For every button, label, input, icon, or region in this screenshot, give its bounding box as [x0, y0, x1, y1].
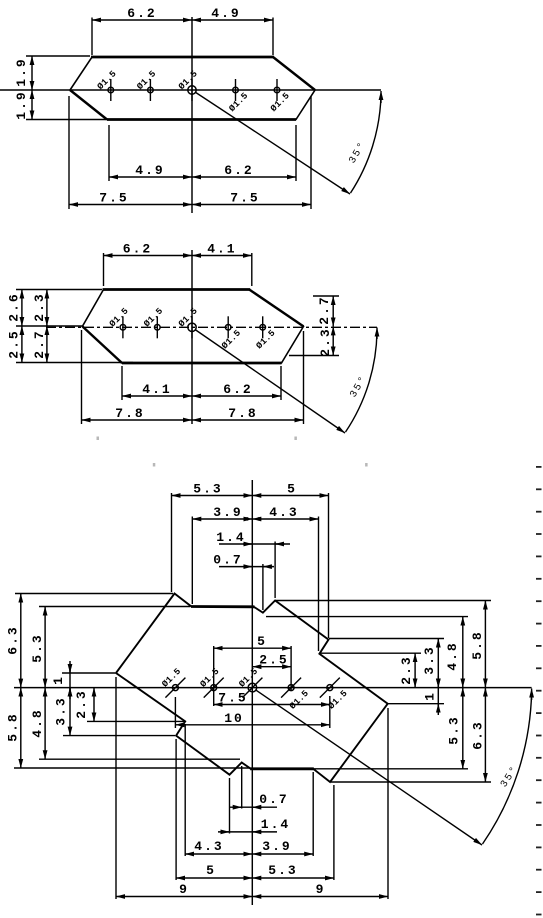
extension line y=326 left (view 2): [16, 325, 82, 327]
svg-text:6.2: 6.2: [127, 6, 156, 21]
svg-text:1.4: 1.4: [216, 530, 245, 545]
svg-text:4.3: 4.3: [269, 505, 298, 520]
hole 1 (view 1): [108, 87, 114, 93]
extension line x=103.5 (view 2): [103, 253, 105, 286]
dimension 3.9 bottom (view 3): [252, 853, 313, 855]
svg-text:1.4: 1.4: [261, 817, 290, 832]
extension line x=229.5 (view 3): [229, 778, 231, 834]
svg-text:5.8: 5.8: [470, 630, 485, 659]
dimension 6.2 top (view 2): [104, 255, 193, 257]
extension line x=213.7 inner (view 3): [213, 646, 215, 706]
svg-text:0.7: 0.7: [259, 792, 288, 807]
extension line x=92 (view 1): [91, 18, 93, 56]
dimension 5 inner (view 3): [214, 647, 291, 649]
extension line x=275.1 (view 3): [274, 542, 276, 599]
svg-text:4.1: 4.1: [207, 242, 236, 257]
svg-text:6.2: 6.2: [223, 382, 252, 397]
extension line x=116 (view 3): [115, 677, 117, 899]
dimension 4.3 top (view 3): [252, 518, 318, 520]
svg-text:2.7: 2.7: [317, 295, 332, 324]
dimension 5.3 top (view 3): [172, 495, 253, 497]
svg-text:6.3: 6.3: [471, 720, 486, 749]
dimension 2.3 right (view 2): [332, 326, 334, 355]
extension line y=703.7 right (view 3): [388, 703, 444, 705]
extension line x=333.9 (view 3): [333, 785, 335, 880]
svg-text:4.8: 4.8: [30, 708, 45, 737]
svg-text:10: 10: [224, 711, 244, 726]
angle arc 35 (view 1): [351, 95, 382, 193]
dimension 5 top (view 3): [252, 495, 328, 497]
hole 3 (view 3): [248, 683, 257, 692]
extension line x=176.1 (view 3): [175, 739, 177, 880]
svg-text:5: 5: [206, 863, 216, 878]
svg-text:4.1: 4.1: [142, 382, 171, 397]
svg-text:5.3: 5.3: [268, 863, 297, 878]
extension line x=318.5 (view 3): [318, 517, 320, 652]
dimension 7.8 right (view 2): [192, 419, 304, 421]
extension line y=56 (view 1): [26, 55, 90, 57]
extension line y=735.6 left (view 3): [63, 735, 175, 737]
svg-text:9: 9: [316, 882, 326, 897]
extension line x=241.7 (view 3): [241, 766, 243, 809]
dimension 1.4 bottom (view 3): [218, 831, 277, 833]
extension line x=262.9 (view 3): [262, 564, 264, 610]
dimension 2.5 (view 2): [21, 326, 23, 363]
dimension 4.8 right (view 3): [462, 617, 464, 688]
dimension 2.3 right (view 3): [414, 653, 416, 687]
extension line x=192.3 (view 3): [191, 517, 193, 605]
hole 4 (view 1): [233, 87, 239, 93]
dimension 2.5 inner (view 3): [252, 666, 291, 668]
extension line x=109 (view 1): [108, 125, 110, 181]
angle arc 35 (view 3): [483, 693, 532, 845]
svg-text:7.5: 7.5: [230, 191, 259, 206]
svg-text:3.3: 3.3: [54, 696, 69, 725]
dimension 1.9 lower (view 1): [31, 90, 33, 120]
svg-text:5.3: 5.3: [447, 715, 462, 744]
extension line y=638.5 right (view 3): [329, 638, 444, 640]
svg-text:4.3: 4.3: [194, 839, 223, 854]
dimension 6.3 left (view 3): [20, 594, 22, 688]
svg-text:9: 9: [179, 882, 189, 897]
extension line y=616.6 right (view 3): [266, 616, 468, 618]
extension line x=329.8 inner (view 3): [329, 696, 331, 728]
vertical center line (view 1): [191, 17, 193, 213]
dimension 1 left (view 3): [69, 661, 71, 699]
extension line y=768.8 right (view 3): [313, 768, 468, 770]
extension line x=296 (view 1): [295, 125, 297, 181]
dimension 2.3 left (view 3): [93, 688, 95, 722]
extension line x=185.2 (view 3): [184, 724, 186, 856]
dimension 4.1 bottom (view 2): [122, 395, 192, 397]
dimension 6.2 bottom (view 1): [192, 176, 296, 178]
dimension 1.4 top (view 3): [219, 543, 290, 545]
horizontal center line (view 3): [14, 687, 532, 689]
svg-text:2.5: 2.5: [259, 653, 288, 668]
dimension 5 bottom (view 3): [176, 877, 252, 879]
angle leader line 35 (view 3): [256, 690, 483, 845]
extension line y=362.5 left (view 2): [16, 362, 133, 364]
dimension 1.9 upper (view 1): [31, 56, 33, 90]
dimension 6.2 bottom (view 2): [192, 395, 281, 397]
dimension 5.8 left (view 3): [20, 688, 22, 768]
extension line x=171.5 (view 3): [171, 493, 173, 592]
dimension 7.5 left (view 1): [69, 204, 192, 206]
extension line y=600.5 right (view 3): [276, 600, 491, 602]
part outline stepped hexagon (view 3): [116, 594, 388, 783]
faint page artifact dots: [97, 437, 100, 441]
extension line y=782 right (view 3): [331, 781, 491, 783]
svg-text:7.5: 7.5: [99, 191, 128, 206]
extension line x=303.5 (view 2): [303, 331, 305, 424]
extension line x=175.4 inner (view 3): [174, 697, 176, 728]
hole 3 (view 1): [188, 86, 196, 94]
horizontal center line (view 2): [46, 326, 377, 328]
hole 5 (view 2): [260, 325, 266, 331]
extension line y=653.2 right (view 3): [320, 652, 421, 654]
svg-text:2.7: 2.7: [32, 329, 47, 358]
hole 5 (view 3): [327, 685, 333, 691]
hole 4 (view 2): [225, 325, 231, 331]
extension line y=673 left (view 3): [62, 672, 115, 674]
svg-text:2.6: 2.6: [7, 292, 22, 321]
dimension 3.9 top (view 3): [192, 518, 252, 520]
svg-text:3.9: 3.9: [262, 839, 291, 854]
vertical center line (view 3): [251, 480, 253, 905]
dimension 5.3 right (view 3): [462, 688, 464, 769]
dimension 2.7 left (view 2): [46, 326, 48, 363]
svg-text:4.9: 4.9: [135, 163, 164, 178]
extension line x=313.2 (view 3): [312, 772, 314, 856]
hole 1 (view 2): [120, 325, 126, 331]
extension line x=251.8 (view 2): [251, 253, 253, 286]
dimension 4.9 bottom (view 1): [109, 176, 192, 178]
svg-text:6.3: 6.3: [6, 625, 21, 654]
hole 2 (view 3): [211, 685, 217, 691]
horizontal center line (view 1): [0, 89, 381, 91]
svg-text:1.9: 1.9: [14, 57, 29, 86]
dimension 4.8 left (view 3): [44, 688, 46, 760]
part outline hexagon (view 1): [70, 57, 315, 120]
dimension 5.3 left (view 3): [44, 607, 46, 688]
svg-text:7.8: 7.8: [115, 406, 144, 421]
part outline hexagon (view 2): [82, 290, 303, 364]
svg-text:2.3: 2.3: [32, 292, 47, 321]
tick dots at center of 3.9/4.3 dimension (view 3): [245, 517, 248, 520]
extension line y=296 right (view 2): [313, 295, 339, 297]
extension line y=721.4 left (view 3): [87, 720, 185, 722]
svg-text:4.9: 4.9: [211, 6, 240, 21]
extension line x=122 (view 2): [121, 366, 123, 400]
dimension 10 inner (view 3): [175, 724, 329, 726]
dimension 2.7 right (view 2): [332, 296, 334, 326]
hole 1 (view 3): [172, 685, 178, 691]
dimension 4.9 top (view 1): [192, 19, 273, 21]
dimension 9 left (view 3): [116, 896, 252, 898]
dimension 6.2 top (view 1): [92, 19, 192, 21]
svg-text:7.5: 7.5: [218, 691, 247, 706]
vertical center line (view 2): [191, 250, 193, 424]
extension line x=388 (view 3): [387, 708, 389, 899]
dimension 4.1 top (view 2): [192, 255, 252, 257]
svg-text:5.3: 5.3: [30, 633, 45, 662]
dimension 5.8 right (view 3): [484, 601, 486, 688]
angle reference tick (view 3): [531, 689, 533, 701]
svg-text:1: 1: [423, 691, 438, 701]
dimension 3.3 left (view 3): [69, 688, 71, 736]
page edge dash marks (right margin): [536, 466, 542, 468]
angle arc 35 (view 2): [346, 332, 378, 433]
svg-text:2.5: 2.5: [7, 329, 22, 358]
svg-text:4.8: 4.8: [445, 641, 460, 670]
svg-text:0.7: 0.7: [213, 553, 242, 568]
dimension 7.5 right (view 1): [192, 204, 311, 206]
extension line x=291.1 inner (view 3): [290, 646, 292, 691]
dimension 2.6 (view 2): [21, 290, 23, 327]
svg-text:6.2: 6.2: [224, 163, 253, 178]
angle leader line 35 (view 1): [195, 92, 350, 194]
svg-text:5: 5: [257, 634, 267, 649]
angle reference tick (view 2): [376, 328, 378, 340]
dimension 5.3 bottom (view 3): [252, 877, 334, 879]
extension line x=69 (view 1): [68, 96, 70, 209]
extension line x=281 (view 2): [280, 366, 282, 400]
dimension 2.3 left (view 2): [46, 290, 48, 327]
dimension 6.3 right (view 3): [484, 688, 486, 783]
svg-text:5.3: 5.3: [193, 482, 222, 497]
extension line y=289.5 left (view 2): [16, 289, 102, 291]
hole 5 (view 1): [274, 87, 280, 93]
angle leader line 35 (view 2): [195, 330, 345, 434]
svg-text:5: 5: [287, 482, 297, 497]
svg-text:3.3: 3.3: [422, 645, 437, 674]
extension line y=759.2 left (view 3): [39, 758, 240, 760]
dimension 9 right (view 3): [252, 896, 388, 898]
svg-text:2.3: 2.3: [74, 689, 89, 718]
svg-text:1: 1: [51, 675, 66, 685]
angle reference tick (view 1): [380, 91, 382, 103]
dimension 7.8 left (view 2): [82, 419, 193, 421]
svg-text:7.8: 7.8: [228, 406, 257, 421]
svg-text:6.2: 6.2: [123, 242, 152, 257]
dimension 1 right (view 3): [437, 676, 439, 715]
dimension 0.7 top (view 3): [219, 566, 274, 568]
extension line x=329.3 (view 3): [328, 493, 330, 638]
dimension 7.5 inner (view 3): [214, 704, 330, 706]
dimension 4.3 bottom (view 3): [185, 853, 252, 855]
extension line x=273 (view 1): [272, 18, 274, 56]
extension line y=606.5 left (view 3): [39, 606, 190, 608]
extension line y=119.5 left (view 1): [26, 119, 106, 121]
dimension 0.7 bottom (view 3): [230, 806, 277, 808]
svg-text:5.8: 5.8: [6, 712, 21, 741]
extension line y=593.5 left (view 3): [15, 593, 173, 595]
svg-text:3.9: 3.9: [213, 505, 242, 520]
dimension 3.3 right (view 3): [437, 639, 439, 688]
extension line x=311 (view 1): [310, 96, 312, 209]
svg-text:2.3: 2.3: [399, 655, 414, 684]
hole 2 (view 2): [155, 325, 161, 331]
extension line x=81.5 (view 2): [81, 330, 83, 424]
svg-text:1.9: 1.9: [14, 90, 29, 119]
svg-text:2.3: 2.3: [318, 327, 333, 356]
hole 3 (view 2): [188, 323, 196, 331]
extension line y=355.5 right (view 2): [289, 355, 339, 357]
extension line y=768 left (view 3): [14, 767, 250, 769]
hole 4 (view 3): [288, 685, 294, 691]
hole 2 (view 1): [148, 87, 154, 93]
